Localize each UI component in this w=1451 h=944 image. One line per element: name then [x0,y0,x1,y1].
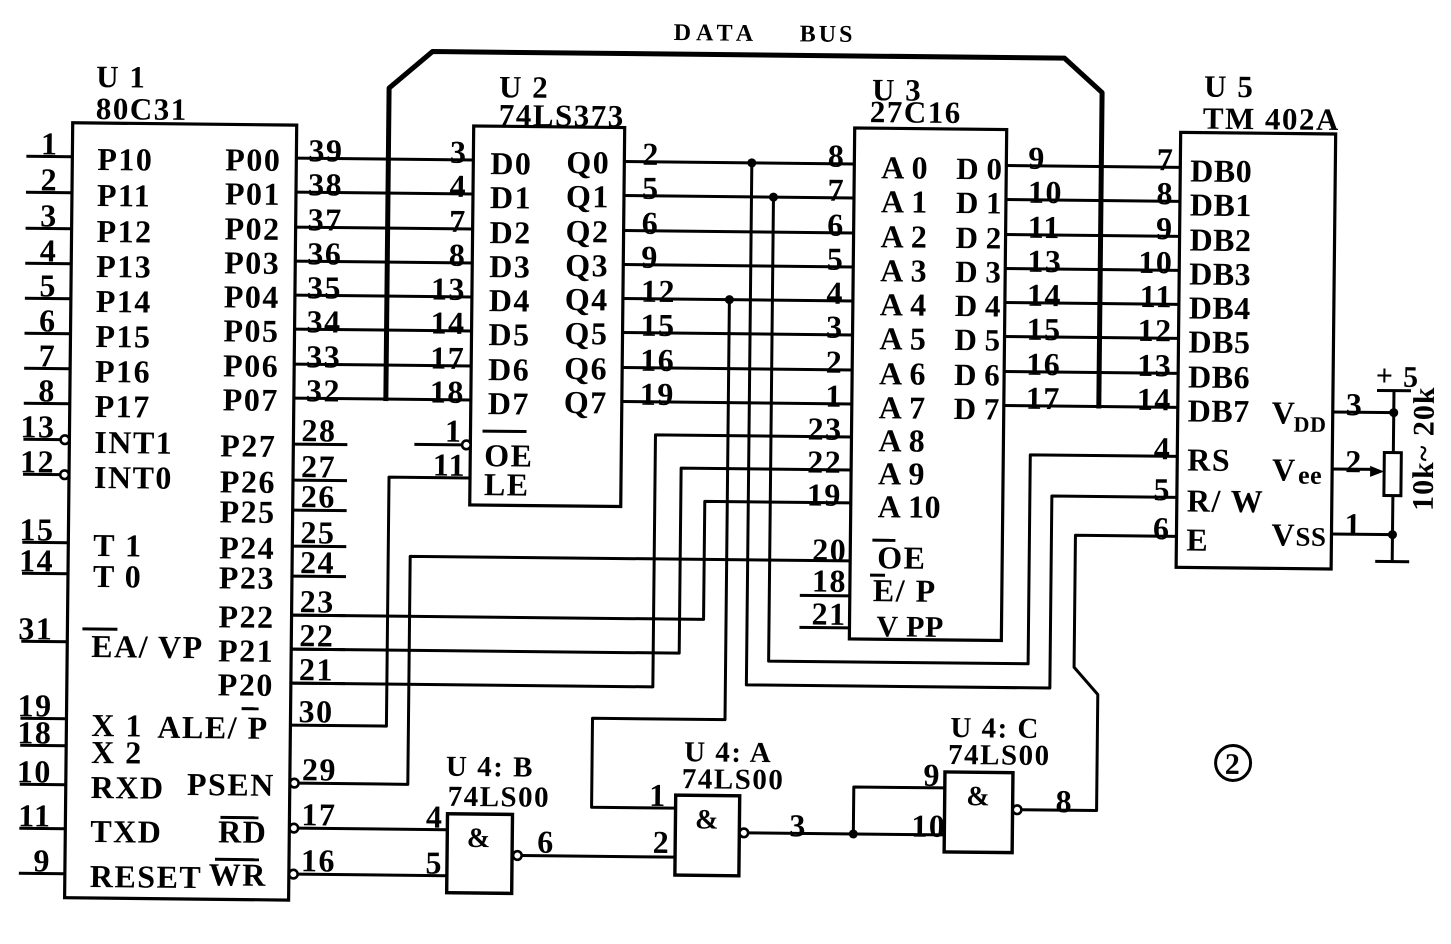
U2 pin label Q2 [565,213,609,249]
svg-text:12: 12 [20,443,55,479]
U5 pin label DB5 [1188,323,1250,360]
svg-text:INT0: INT0 [94,459,173,496]
svg-text:10: 10 [17,753,52,789]
U2 pin label Q4 [565,281,609,317]
svg-text:SS: SS [1295,522,1326,552]
U4:A labels [682,736,785,796]
svg-text:10k~ 20k: 10k~ 20k [1407,386,1441,511]
U3 pin label A6 [879,355,926,391]
wire P07: U1 pin 32 to U2 D7 pin [294,372,471,410]
wire P21: U1 pin 22 to U3 A9 pin 22 [291,464,851,655]
svg-text:2: 2 [826,344,844,380]
U2 pin label D6 [488,351,530,387]
svg-text:1: 1 [1344,506,1362,542]
svg-text:D7: D7 [488,385,530,421]
svg-text:14: 14 [430,305,465,341]
svg-text:4: 4 [40,232,58,268]
wire Q1 branch to U5 RS [769,197,1180,665]
svg-text:WR: WR [209,856,267,893]
svg-text:8: 8 [1055,783,1073,819]
svg-text:15: 15 [640,307,675,343]
svg-text:1: 1 [649,777,667,813]
svg-text:DD: DD [1293,412,1326,437]
svg-text:DB1: DB1 [1190,186,1252,223]
svg-text:35: 35 [307,269,342,305]
wire D2: U3 pin 11 to U5 DB2 pin 9 [1005,209,1179,247]
U5 pin label DB7 [1188,392,1250,429]
U3 pin 23 A8 [807,410,925,458]
svg-text:24: 24 [300,544,335,580]
U3 pin label D4 [955,288,1001,323]
U1 pin 12 INT0 [20,443,173,496]
svg-text:34: 34 [306,303,341,339]
svg-text:V PP: V PP [876,610,944,644]
svg-text:Q0: Q0 [566,144,610,180]
svg-text:74LS00: 74LS00 [448,781,551,814]
svg-text:A 6: A 6 [879,355,926,391]
ground tick at pot bottom [1375,560,1409,563]
wire D7: U3 pin 17 to U5 DB7 pin 14 [1004,380,1178,418]
U1 pin 24 P23 [219,543,347,596]
wire Q6: U2 pin 16 to U3 A6 pin 2 [622,342,852,380]
svg-text:P00: P00 [225,141,281,178]
svg-text:3: 3 [1346,386,1364,422]
svg-text:Q7: Q7 [564,384,608,420]
U3 pin label A1 [881,183,928,219]
svg-text:8: 8 [449,237,467,273]
gate U4:C box (74LS00 NAND) [944,772,1013,853]
svg-text:D1: D1 [490,179,532,215]
svg-text:14: 14 [1027,277,1062,313]
svg-text:D 4: D 4 [955,288,1001,323]
svg-text:D0: D0 [490,145,532,181]
svg-text:28: 28 [301,412,336,448]
svg-text:18: 18 [17,714,52,750]
U3 pin 21 VPP [799,595,944,644]
svg-text:Q6: Q6 [564,350,608,386]
svg-text:11: 11 [1027,209,1061,245]
svg-text:6: 6 [1153,510,1171,546]
svg-text:7: 7 [1157,141,1175,177]
U5 pin 4 RS [1154,430,1232,478]
svg-text:A 3: A 3 [880,252,927,288]
svg-text:&: & [966,781,991,812]
svg-text:A 9: A 9 [878,455,925,491]
svg-text:21: 21 [811,596,846,632]
svg-text:74LS00: 74LS00 [948,739,1051,772]
svg-text:RXD: RXD [91,769,165,806]
svg-text:U 1: U 1 [96,59,147,95]
svg-text:9: 9 [1156,210,1174,246]
U3 pin label D5 [954,322,1000,357]
svg-text:P21: P21 [218,632,274,669]
svg-text:14: 14 [19,542,54,578]
svg-text:D 7: D 7 [954,391,1000,426]
svg-text:A 4: A 4 [880,286,927,322]
U2 pin 11 LE [433,447,530,503]
wire ALE to U2 LE [290,476,470,727]
svg-text:33: 33 [306,338,341,374]
svg-text:74LS373: 74LS373 [499,97,625,133]
wire D1: U3 pin 10 to U5 DB1 pin 8 [1006,174,1180,212]
U3 pin label D6 [954,357,1000,392]
U1 label P01 [225,175,281,212]
wire P02: U1 pin 37 to U2 D2 pin [296,201,473,239]
U2 pin label D7 [488,385,530,421]
U1 pin 21 P20 [218,650,346,703]
svg-text:4: 4 [426,799,444,835]
svg-text:4: 4 [1154,430,1172,466]
U1 pin 26 P25 [219,477,347,530]
wire P01: U1 pin 38 to U2 D1 pin [296,166,473,204]
wire D3: U3 pin 13 to U5 DB3 pin 10 [1005,243,1179,281]
svg-text:P01: P01 [225,175,281,212]
svg-text:13: 13 [431,271,466,307]
wire P22: U1 pin 23 to U3 A10 pin 19 [292,497,851,621]
svg-text:P25: P25 [219,493,275,530]
U3 pin label D2 [955,220,1001,255]
svg-text:17: 17 [430,340,465,376]
svg-text:38: 38 [308,166,343,202]
svg-text:74LS00: 74LS00 [682,763,785,796]
U1 pin 9 RESET [19,842,203,895]
svg-text:19: 19 [640,376,675,412]
wire U4:C pin 8 to U5 E [1021,535,1176,821]
svg-text:22: 22 [807,443,842,479]
wire P03: U1 pin 36 to U2 D3 pin [295,235,472,273]
svg-text:18: 18 [430,374,465,410]
wire P05: U1 pin 34 to U2 D5 pin [294,303,471,341]
svg-text:P11: P11 [97,177,152,214]
svg-text:10: 10 [1138,244,1173,280]
U3 pin label D3 [955,254,1001,289]
svg-text:9: 9 [33,842,51,878]
U1 pin 17 RD [218,795,337,850]
U1 pin 31 EAVP [18,610,204,665]
svg-text:DB2: DB2 [1189,221,1251,258]
svg-text:X 2: X 2 [91,734,143,771]
svg-text:T 0: T 0 [93,558,143,595]
U4:C output pin 8 bubble [1013,805,1022,814]
U4:B output pin 6 bubble [513,851,522,860]
U5 pin label DB6 [1188,358,1250,395]
svg-text:A 1: A 1 [881,183,928,219]
svg-text:5: 5 [1153,471,1171,507]
wire D0: U3 pin 9 to U5 DB0 pin 7 [1006,140,1180,178]
wire U4:B pin 6 to U4:A pin 2 [521,823,675,862]
svg-text:9: 9 [1028,140,1046,176]
U3 pin label A2 [880,218,927,254]
U1 pin 13 INT1 [20,408,173,461]
svg-text:A 8: A 8 [878,422,925,458]
svg-text:7: 7 [449,203,467,239]
U5 pin label DB4 [1189,289,1251,326]
wire U4:A pin 3 to U4:C inputs [748,807,944,845]
svg-text:ee: ee [1298,461,1322,490]
svg-text:D 0: D 0 [956,151,1002,186]
svg-text:D 6: D 6 [954,357,1000,392]
svg-text:A 2: A 2 [880,218,927,254]
svg-text:DB0: DB0 [1190,152,1252,189]
resistor RP1 potentiometer 10k~20k body [1383,453,1401,562]
svg-text:A 0: A 0 [881,149,928,185]
svg-text:D5: D5 [488,316,530,352]
svg-text:P02: P02 [224,210,280,247]
U1 label P07 [223,381,279,418]
U2 pin label D3 [489,248,531,284]
svg-text:19: 19 [807,476,842,512]
U1 pin 14 T0 [19,542,143,594]
IC U5 TM402A (LCD module) box [1176,132,1336,569]
U3 pin 22 A9 [807,443,925,491]
U2 pin 1 OE [414,412,534,473]
U3 reference label [870,72,962,130]
svg-text:A 5: A 5 [879,320,926,356]
U1 pin 4 P13 [25,232,153,284]
U5 pin 5 R/W [1153,471,1264,519]
svg-text:12: 12 [641,273,676,309]
U5 pin 3 VDD [1272,385,1395,437]
svg-text:&: & [695,804,720,835]
svg-text:4: 4 [449,168,467,204]
svg-text:39: 39 [308,132,343,168]
svg-text:8: 8 [38,372,56,408]
svg-text:Q3: Q3 [565,247,609,283]
svg-text:4: 4 [826,275,844,311]
wire D5: U3 pin 15 to U5 DB5 pin 12 [1004,311,1178,349]
svg-text:16: 16 [640,342,675,378]
svg-text:3: 3 [826,309,844,345]
wire P06: U1 pin 33 to U2 D6 pin [294,338,471,376]
U5 pin label DB1 [1190,186,1252,223]
svg-text:5: 5 [642,170,660,206]
svg-text:P23: P23 [219,559,275,596]
U1 pin 2 P11 [26,161,152,213]
U3 pin 19 A10 [807,476,942,524]
svg-text:1: 1 [825,378,843,414]
svg-text:9: 9 [923,757,941,793]
U1 pin 10 RXD [17,753,165,806]
svg-text:EA/ VP: EA/ VP [91,628,204,665]
svg-text:2: 2 [1345,443,1363,479]
svg-text:15: 15 [1026,311,1061,347]
svg-text:D3: D3 [489,248,531,284]
svg-text:32: 32 [306,372,341,408]
U3 pin label A7 [879,389,926,425]
U5 pin 2 Vee [1272,442,1373,490]
U2 pin label Q0 [566,144,610,180]
svg-text:14: 14 [1137,381,1172,417]
svg-text:31: 31 [18,610,53,646]
svg-text:D 1: D 1 [956,185,1002,220]
svg-text:A 10: A 10 [878,488,942,525]
svg-text:P20: P20 [218,666,274,703]
wire D6: U3 pin 16 to U5 DB6 pin 13 [1004,346,1178,384]
svg-text:11: 11 [433,447,467,483]
U1 label P06 [223,347,279,384]
svg-text:Q2: Q2 [565,213,609,249]
svg-text:D4: D4 [489,282,531,318]
svg-text:D6: D6 [488,351,530,387]
svg-text:R/ W: R/ W [1187,482,1265,519]
svg-text:11: 11 [1140,278,1174,314]
U2 pin label Q7 [564,384,608,420]
svg-text:E: E [1186,521,1209,557]
U4:B labels [446,751,551,814]
svg-text:DB3: DB3 [1189,255,1251,292]
svg-text:P14: P14 [96,283,152,320]
U1 label P03 [224,244,280,281]
svg-text:PSEN: PSEN [187,766,275,803]
wire RD to U4B pin 4 [298,797,447,835]
svg-text:P03: P03 [224,244,280,281]
wire Q5: U2 pin 15 to U3 A5 pin 3 [622,307,852,345]
svg-text:2: 2 [642,136,660,172]
U3 pin label D0 [956,151,1002,186]
U4:C labels [948,712,1051,772]
svg-text:D 5: D 5 [954,322,1000,357]
svg-text:23: 23 [807,410,842,446]
wire P04: U1 pin 35 to U2 D4 pin [295,269,472,307]
wire Q1: U2 pin 5 to U3 A1 pin 7 [624,170,854,208]
svg-text:7: 7 [827,172,845,208]
figure number 2 (circled) [1215,745,1250,781]
svg-text:6: 6 [537,824,555,860]
svg-text:&: & [467,823,492,854]
wire Q0: U2 pin 2 to U3 A0 pin 8 [624,136,854,174]
U3 pin label D1 [956,185,1002,220]
wire Q4 branch to U4:A pin 1 [592,298,730,813]
U3 pin 20 OE [812,532,927,576]
svg-text:13: 13 [1137,347,1172,383]
junction on Q0 line [747,158,756,167]
IC U3 27C16 (EPROM) box [849,128,1006,641]
U1 pin 22 P21 [218,616,346,669]
svg-text:2: 2 [653,824,671,860]
svg-text:6: 6 [39,302,57,338]
svg-text:P10: P10 [97,141,153,178]
svg-text:Q5: Q5 [564,315,608,351]
gate U4:B box (74LS00 NAND) [447,814,513,894]
svg-text:U 5: U 5 [1204,69,1255,105]
U2 pin label Q5 [564,315,608,351]
wire PSEN to U3 OE [299,555,850,789]
svg-text:26: 26 [301,478,336,514]
svg-text:D2: D2 [489,214,531,250]
svg-text:18: 18 [812,563,847,599]
svg-text:5: 5 [425,845,443,881]
svg-text:17: 17 [1026,380,1061,416]
U1 pin 28 P27 [220,411,348,464]
U2 pin label Q6 [564,350,608,386]
U2 pin label Q1 [566,178,610,214]
svg-text:5: 5 [39,267,57,303]
resistor value label 10k~ 20k [1407,386,1441,511]
U3 pin 18 E/P [800,562,937,608]
svg-text:RS: RS [1187,441,1231,477]
svg-text:9: 9 [641,239,659,275]
svg-text:10: 10 [1028,174,1063,210]
junction on Q1 line [769,193,778,202]
wire Q7: U2 pin 19 to U3 A7 pin 1 [622,376,852,414]
U2 pin label D2 [489,214,531,250]
svg-text:P13: P13 [96,248,152,285]
U5 pin 6 E [1153,510,1210,558]
svg-text:27C16: 27C16 [870,94,962,130]
U1 pin 19 X1 [17,687,143,743]
U1 pin 27 P26 [220,447,348,500]
svg-text:+: + [1376,359,1395,392]
net DATA BUS label [674,20,856,48]
svg-text:8: 8 [828,138,846,174]
svg-text:6: 6 [642,205,660,241]
svg-text:3: 3 [450,134,468,170]
power +5 supply [1375,359,1420,452]
junction on Q4 line [725,295,734,304]
svg-text:P22: P22 [218,598,274,635]
svg-text:U 4: B: U 4: B [446,751,534,784]
wire Q0 branch to U5 R/W [746,163,1180,689]
wire Q2: U2 pin 6 to U3 A2 pin 6 [624,205,854,243]
U2 pin label D5 [488,316,530,352]
svg-text:OE: OE [877,539,927,576]
U3 pin label A3 [880,252,927,288]
svg-text:Q1: Q1 [566,178,610,214]
svg-text:2: 2 [40,161,58,197]
U5 reference label [1203,69,1341,137]
U1 pin 30 ALE/P label [157,692,334,747]
wire Q4: U2 pin 12 to U3 A4 pin 4 [623,273,853,311]
U1 label P00 [225,141,281,178]
svg-text:16: 16 [1026,346,1061,382]
U2 pin label D0 [490,145,532,181]
svg-text:P07: P07 [223,381,279,418]
svg-text:Q4: Q4 [565,281,609,317]
junction VDD node [1389,408,1398,417]
svg-text:1: 1 [41,125,59,161]
svg-text:A 7: A 7 [879,389,926,425]
IC U2 74LS373 (latch) box [470,126,625,507]
U2 pin label D4 [489,282,531,318]
U5 pin 1 VSS [1271,505,1392,553]
U2 pin label Q3 [565,247,609,283]
svg-text:2: 2 [1225,748,1242,781]
U1 pin 7 P16 [24,337,152,389]
junction at U4:C input [849,829,858,838]
U1 pin 23 P22 [218,582,346,635]
svg-text:DB6: DB6 [1188,358,1250,395]
svg-text:P06: P06 [223,347,279,384]
svg-text:DATA: DATA [674,20,759,47]
svg-text:P05: P05 [223,312,279,349]
U3 pin label A5 [879,320,926,356]
U2 pin label D1 [490,179,532,215]
svg-text:8: 8 [1156,175,1174,211]
gate U4:A box (74LS00 NAND) [675,795,740,876]
U3 pin label A0 [881,149,928,185]
svg-text:P16: P16 [95,353,151,390]
svg-text:6: 6 [827,207,845,243]
svg-text:P15: P15 [95,318,151,355]
wire DATA BUS (thick bus line) [386,51,1103,408]
svg-text:3: 3 [789,807,807,843]
wiper arrow to Vee [1370,466,1384,477]
svg-text:13: 13 [1027,243,1062,279]
svg-text:V: V [1272,451,1297,487]
svg-text:1: 1 [445,413,463,449]
U1 pin 25 P24 [219,513,347,566]
U5 pin label DB2 [1189,221,1251,258]
